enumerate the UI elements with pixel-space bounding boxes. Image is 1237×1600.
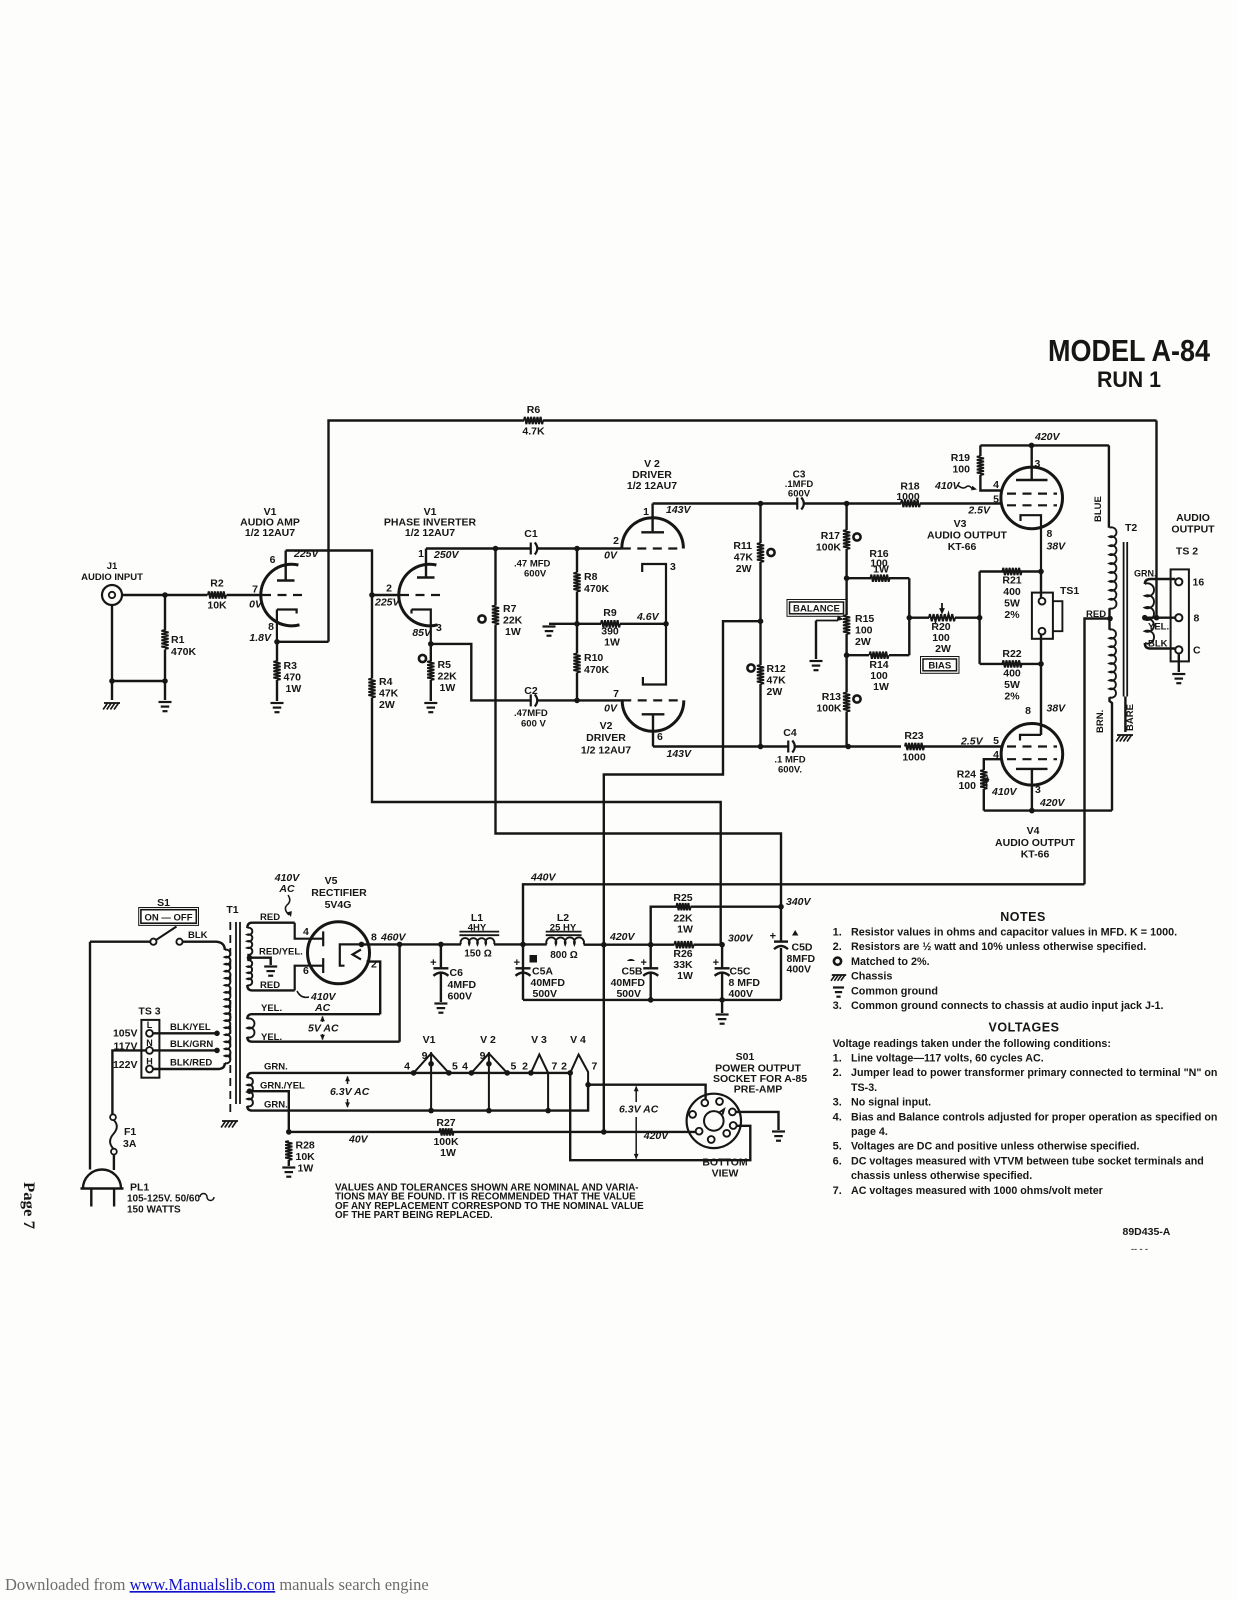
note line 3 <box>851 956 930 968</box>
svg-text:800 Ω: 800 Ω <box>550 950 577 961</box>
label R16 value <box>870 558 888 570</box>
svg-text:2: 2 <box>561 1061 567 1073</box>
node R11 top <box>758 501 764 507</box>
label V1 heater <box>423 1034 436 1046</box>
tube PI grid <box>400 594 443 596</box>
label C5D volt <box>787 964 812 976</box>
label R23 value <box>902 752 926 764</box>
label R10 <box>584 652 603 664</box>
svg-text:R13: R13 <box>822 691 841 703</box>
label R23 <box>904 730 923 742</box>
svg-text:8: 8 <box>1025 705 1031 717</box>
tube V2a plate <box>641 504 664 533</box>
svg-text:GRN.: GRN. <box>1134 569 1157 579</box>
label R20 value <box>932 632 950 644</box>
label L2 ohms <box>550 950 577 961</box>
wire 5V top <box>247 1014 380 1019</box>
wire V2a plate line <box>653 502 1002 504</box>
label R6 <box>527 404 541 416</box>
label R15 watt <box>855 636 871 648</box>
coil T2 primary upper <box>1110 527 1117 608</box>
wire R25 loop <box>651 907 781 945</box>
svg-text:1/2 12AU7: 1/2 12AU7 <box>627 480 677 492</box>
svg-text:BARE: BARE <box>1125 704 1136 731</box>
wire heater to socket <box>588 1085 706 1100</box>
svg-text:5: 5 <box>993 735 999 747</box>
tube V4 plate <box>1016 769 1048 811</box>
svg-text:V 2: V 2 <box>480 1034 496 1046</box>
svg-text:420V: 420V <box>1034 431 1061 443</box>
svg-text:4HY: 4HY <box>468 923 487 934</box>
svg-text:1W: 1W <box>604 637 620 649</box>
label V2a type <box>627 480 677 492</box>
voltages line 1 <box>833 1038 1111 1050</box>
label TS3 H <box>146 1057 153 1067</box>
capacitor C5A <box>514 955 537 976</box>
chassis ground T1 core <box>221 1121 238 1128</box>
svg-text:1.: 1. <box>833 927 842 939</box>
node rail feed <box>601 942 607 948</box>
common ground C5C <box>716 1015 729 1024</box>
resistor R14 <box>870 652 889 659</box>
svg-text:2W: 2W <box>379 699 395 711</box>
svg-text:2.: 2. <box>833 941 842 953</box>
svg-text:R27: R27 <box>436 1117 455 1129</box>
label R4 watt <box>379 699 395 711</box>
wire C5B drop <box>650 945 652 1000</box>
label V1b name <box>384 517 477 529</box>
label 2.5V lower <box>960 736 984 748</box>
title MODEL A-84 <box>1048 333 1211 368</box>
resistor R23 <box>905 743 924 750</box>
wire R21 line <box>980 570 1041 572</box>
voltages line 2 <box>851 1053 1044 1065</box>
svg-text:R25: R25 <box>673 892 692 904</box>
svg-text:250V: 250V <box>433 549 460 561</box>
svg-text:3: 3 <box>436 622 442 634</box>
label V2 h9 <box>480 1050 486 1062</box>
label V3 type <box>948 541 977 553</box>
wire feedback top <box>329 421 1157 642</box>
label BRN <box>1095 710 1106 733</box>
label R24 <box>957 769 976 781</box>
resistor R10 <box>573 654 580 673</box>
svg-text:85V: 85V <box>412 627 432 639</box>
label PI pin2 <box>386 583 392 595</box>
svg-text:OUTPUT: OUTPUT <box>1171 524 1215 536</box>
label TS3 N <box>146 1038 153 1048</box>
label R26 <box>673 948 692 960</box>
svg-text:600V: 600V <box>788 489 811 500</box>
svg-text:6: 6 <box>303 965 309 977</box>
note line 1 <box>851 927 1177 939</box>
tube V4 envelope <box>1001 724 1063 786</box>
matched mark R13 <box>853 695 860 702</box>
svg-text:BALANCE: BALANCE <box>793 604 841 615</box>
label ON-OFF <box>144 913 192 924</box>
label V3 pin4 <box>993 479 999 491</box>
svg-text:6.: 6. <box>833 1155 842 1167</box>
label V2a pin2 <box>613 535 619 547</box>
svg-text:470: 470 <box>284 672 302 684</box>
svg-text:100: 100 <box>952 464 970 476</box>
box BIAS <box>921 657 960 674</box>
node R10 bottom <box>574 698 580 704</box>
wire R14 line <box>847 654 910 656</box>
label V5 type <box>325 899 352 911</box>
svg-text:BLK/RED: BLK/RED <box>170 1058 212 1069</box>
node T2 red tap <box>1107 616 1113 622</box>
svg-text:143V: 143V <box>667 748 693 760</box>
label 410V V3 <box>934 480 977 492</box>
svg-text:1W: 1W <box>677 924 693 936</box>
tube V2b grid <box>622 699 684 701</box>
svg-text:4.7K: 4.7K <box>522 426 545 438</box>
label C1 value <box>514 559 551 570</box>
wire 117V feed <box>112 1050 146 1114</box>
voltages line 5 <box>851 1097 931 1109</box>
svg-text:L: L <box>147 1020 153 1030</box>
node V2 h9b <box>486 1108 492 1114</box>
svg-text:47K: 47K <box>767 675 787 687</box>
svg-text:3: 3 <box>1035 784 1041 796</box>
svg-text:AUDIO: AUDIO <box>1176 512 1210 524</box>
resistor R3 <box>273 661 280 680</box>
plug PL1 <box>81 1170 124 1207</box>
svg-text:22K: 22K <box>438 671 458 683</box>
node V1 h4 <box>411 1070 417 1076</box>
box ON-OFF <box>139 908 199 926</box>
label VOLTAGES heading <box>989 1021 1060 1035</box>
label TS2 8 <box>1194 613 1200 625</box>
label C3 value <box>785 479 814 490</box>
svg-text:YEL.: YEL. <box>261 1032 282 1043</box>
label BLK/YEL <box>170 1022 211 1033</box>
label V5 <box>325 875 338 887</box>
svg-text:5: 5 <box>452 1061 458 1073</box>
svg-text:BLK: BLK <box>1148 639 1168 650</box>
svg-text:122V: 122V <box>113 1059 138 1071</box>
svg-text:BLK: BLK <box>188 930 208 941</box>
svg-text:PRE-AMP: PRE-AMP <box>734 1084 782 1096</box>
wire 420V top line <box>980 444 1109 446</box>
terminal strip TS3 <box>141 1020 159 1078</box>
svg-text:420V: 420V <box>609 931 636 943</box>
wire R22 line <box>980 663 1041 665</box>
label C6 value <box>448 979 477 991</box>
svg-text:2: 2 <box>613 535 619 547</box>
svg-text:300V: 300V <box>728 933 754 945</box>
resistor R18 <box>901 500 920 507</box>
tube V5 envelope <box>308 922 370 984</box>
label R9 watt <box>604 637 620 649</box>
svg-text:5V4G: 5V4G <box>325 899 352 911</box>
svg-text:TS 2: TS 2 <box>1176 546 1198 558</box>
label 40V <box>348 1134 369 1146</box>
label R11 <box>733 540 752 552</box>
wire tap H <box>153 1068 218 1070</box>
label V2a pin3 <box>670 561 676 573</box>
svg-text:page 4.: page 4. <box>851 1126 888 1138</box>
svg-text:Resistor values in ohms and ca: Resistor values in ohms and capacitor va… <box>851 927 1177 939</box>
svg-text:2%: 2% <box>1004 609 1020 621</box>
voltages num 5. <box>833 1141 842 1153</box>
svg-text:2W: 2W <box>767 686 783 698</box>
label 5V AC <box>308 1016 339 1041</box>
node 340V <box>778 904 784 910</box>
svg-text:150 WATTS: 150 WATTS <box>127 1205 181 1216</box>
svg-text:1000: 1000 <box>896 491 920 503</box>
svg-text:3: 3 <box>1035 458 1041 470</box>
matched mark R5 <box>419 655 426 662</box>
label V3 heater <box>531 1034 547 1046</box>
svg-text:600 V: 600 V <box>521 719 546 730</box>
node tap N <box>214 1048 220 1054</box>
wire PI cathode to C2 <box>431 644 623 701</box>
heater V1 tent <box>414 1052 449 1111</box>
node 440V corner <box>520 942 526 948</box>
svg-text:Line voltage—117 volts, 60 cyc: Line voltage—117 volts, 60 cycles AC. <box>851 1053 1044 1065</box>
label L1 <box>471 912 483 924</box>
resistor R1 <box>161 630 168 649</box>
svg-text:C1: C1 <box>524 528 538 540</box>
svg-text:2.5V: 2.5V <box>960 736 984 748</box>
capacitor C5B <box>627 957 658 976</box>
note line 5 <box>851 985 938 997</box>
svg-text:Page 7: Page 7 <box>20 1182 37 1229</box>
label RED/YEL <box>259 947 303 958</box>
values note line 1 <box>335 1183 639 1194</box>
svg-text:VIEW: VIEW <box>712 1168 739 1180</box>
svg-text:6.3V AC: 6.3V AC <box>619 1104 659 1116</box>
matched mark note <box>834 958 841 965</box>
label R8 <box>584 571 598 583</box>
label R10 value <box>584 664 610 676</box>
svg-text:2: 2 <box>386 583 392 595</box>
label NOTES heading <box>1000 910 1046 924</box>
label L2 value <box>550 923 577 934</box>
label C3 volt <box>788 489 811 500</box>
label RED top <box>260 912 280 923</box>
label F1 value <box>123 1138 137 1150</box>
svg-text:1/2 12AU7: 1/2 12AU7 <box>581 745 631 757</box>
wire R15 wiper gnd <box>815 621 817 660</box>
svg-text:8: 8 <box>371 932 377 944</box>
wire grnyel tap <box>250 1091 289 1132</box>
wire R20 line <box>909 617 979 619</box>
footer text <box>5 1575 429 1594</box>
svg-text:8: 8 <box>1047 528 1053 540</box>
svg-text:BLUE: BLUE <box>1093 496 1104 522</box>
capacitor C4 <box>788 741 795 753</box>
common ground R9 <box>543 627 556 636</box>
label audio input <box>81 572 143 583</box>
voltages line 7 <box>851 1126 888 1138</box>
wire redyel tap <box>250 958 271 965</box>
svg-text:V 3: V 3 <box>531 1034 547 1046</box>
svg-text:+: + <box>514 957 520 969</box>
svg-text:1W: 1W <box>298 1163 314 1175</box>
wire blk to TS2 <box>1150 647 1175 649</box>
svg-text:5: 5 <box>511 1061 517 1073</box>
svg-text:Jumper lead to power transform: Jumper lead to power transformer primary… <box>851 1067 1217 1079</box>
svg-text:Common ground connects to chas: Common ground connects to chassis at aud… <box>851 1000 1164 1012</box>
wire R11 jct to rail <box>604 621 761 1132</box>
tube V4 grid4 <box>1007 758 1057 760</box>
wire R4 drop <box>372 595 721 945</box>
label V3 pin5 <box>993 494 999 506</box>
resistor R21 <box>1003 568 1022 575</box>
svg-text:F1: F1 <box>124 1126 136 1138</box>
connector J1 <box>102 585 122 605</box>
svg-text:C5B: C5B <box>621 966 642 978</box>
label R9 value <box>601 626 619 638</box>
label L1 ohms <box>464 949 491 960</box>
label R13 <box>822 691 841 703</box>
wire R27 line <box>289 1131 604 1133</box>
tube PI cathode <box>412 610 431 644</box>
label YEL <box>1148 622 1169 633</box>
common ground S01 <box>772 1132 785 1141</box>
svg-text:R10: R10 <box>584 652 603 664</box>
label BALANCE <box>793 604 841 615</box>
wire R3 tail <box>276 642 278 701</box>
label V1 1.8V <box>249 632 272 644</box>
label R16 <box>869 548 888 560</box>
svg-text:1/2 12AU7: 1/2 12AU7 <box>245 527 295 539</box>
box BALANCE <box>787 600 846 617</box>
svg-text:C5C: C5C <box>730 966 751 978</box>
resistor R2 <box>208 591 226 598</box>
svg-text:R12: R12 <box>767 663 786 675</box>
wire C5C drop <box>721 945 723 1013</box>
svg-text:5W: 5W <box>1004 598 1020 610</box>
svg-text:AC voltages measured with 1000: AC voltages measured with 1000 ohms/volt… <box>851 1185 1103 1197</box>
label C6 <box>450 967 464 979</box>
node R12 bottom <box>758 744 764 750</box>
tube V3 plate <box>1016 445 1048 480</box>
label 6.3VAC left <box>330 1076 370 1108</box>
label V3 name <box>927 530 1008 542</box>
wire yel to TS2 <box>1145 617 1175 619</box>
resistor R7 <box>492 606 499 625</box>
svg-text:0V: 0V <box>604 703 618 715</box>
label V2b <box>600 720 613 732</box>
wire feedback to cathode <box>277 641 329 643</box>
label R22 tol <box>1004 691 1020 703</box>
tube V1 envelope <box>261 564 300 626</box>
subtitle RUN 1 <box>1097 367 1161 392</box>
label V4 heater <box>570 1034 586 1046</box>
wire V3 V4 cathode <box>1040 664 1042 735</box>
common ground R15 <box>810 661 823 670</box>
wire R24 to pin4 <box>984 759 1002 810</box>
label PL1 <box>130 1182 149 1194</box>
svg-text:BRN.: BRN. <box>1095 710 1106 733</box>
svg-text:S01: S01 <box>736 1051 755 1063</box>
label C2 volt <box>521 719 546 730</box>
svg-text:NOTES: NOTES <box>1000 910 1046 924</box>
node gnd right <box>162 678 168 684</box>
tube V5 cathode <box>340 944 361 965</box>
node yel feedback <box>1154 615 1160 621</box>
label V1 pin8 <box>268 621 274 633</box>
label T1 <box>226 904 238 916</box>
svg-text:RECTIFIER: RECTIFIER <box>311 887 367 899</box>
svg-text:chassis unless otherwise speci: chassis unless otherwise specified. <box>851 1170 1032 1182</box>
label V1 0V <box>249 599 263 611</box>
node V1 h5 <box>446 1070 452 1076</box>
svg-text:100K: 100K <box>816 703 842 715</box>
label R11 watt <box>736 563 752 575</box>
label V1a name <box>240 517 300 529</box>
svg-text:BIAS: BIAS <box>928 661 952 672</box>
coil T2 primary lower <box>1110 629 1116 697</box>
label C5C <box>730 966 751 978</box>
label R12 value <box>767 675 787 687</box>
label R16 watt <box>873 564 889 576</box>
label R18 <box>900 481 919 493</box>
svg-text:1W: 1W <box>677 970 693 982</box>
wire 440V line <box>523 884 1085 1000</box>
svg-text:500V: 500V <box>616 988 641 1000</box>
svg-text:GRN.: GRN. <box>264 1062 288 1073</box>
wire C6 drop <box>440 944 442 1002</box>
label V1a <box>264 506 277 518</box>
svg-text:V 4: V 4 <box>570 1034 586 1046</box>
svg-text:R15: R15 <box>855 613 874 625</box>
capacitor C3 <box>797 498 804 510</box>
label YEL bottom <box>261 1032 282 1043</box>
wire R17 R13 chain <box>845 504 847 747</box>
label R19 value <box>952 464 970 476</box>
tube V2a cathode <box>642 564 666 624</box>
label BLK/RED <box>170 1058 212 1069</box>
label audio output <box>1171 512 1215 536</box>
wire 420V rail <box>584 944 723 946</box>
tube V1 grid <box>262 594 305 596</box>
label L1 value <box>468 923 487 934</box>
label V1b type <box>405 527 455 539</box>
wire filter bottom <box>523 999 781 1001</box>
wire R11 R12 chain <box>759 504 761 747</box>
svg-text:600V: 600V <box>448 991 473 1003</box>
svg-text:47K: 47K <box>734 552 754 564</box>
svg-text:1: 1 <box>643 506 649 518</box>
terminal strip TS1 <box>1032 593 1063 639</box>
svg-text:5W: 5W <box>1004 679 1020 691</box>
label R5 value <box>438 671 458 683</box>
label R2 <box>210 578 224 590</box>
resistor R6 <box>524 417 543 424</box>
chassis ground J1 <box>103 703 120 710</box>
node V1 h9b <box>428 1108 434 1114</box>
label 2.5V upper <box>967 505 991 517</box>
label V4 pin3 <box>1035 784 1041 796</box>
wire R1 drop <box>164 595 166 681</box>
voltages num 7. <box>833 1185 842 1197</box>
values note line 3 <box>335 1201 644 1212</box>
label V2a pin1 <box>643 506 649 518</box>
label V2b type <box>581 745 631 757</box>
svg-text:38V: 38V <box>1047 703 1067 715</box>
wiper R20 <box>939 603 945 615</box>
svg-text:C: C <box>1193 645 1201 657</box>
svg-text:R1: R1 <box>171 634 185 646</box>
label V2a name <box>632 469 672 481</box>
label V4 type <box>1021 849 1050 861</box>
svg-text:Voltage readings taken under t: Voltage readings taken under the followi… <box>833 1038 1111 1050</box>
